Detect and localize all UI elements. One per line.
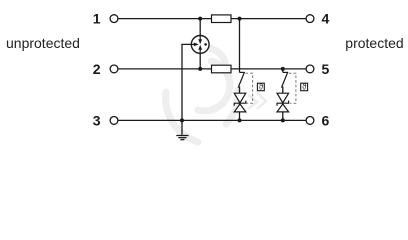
svg-text:2: 2 bbox=[93, 61, 101, 77]
terminal 1 bbox=[110, 15, 118, 23]
terminal 6 bbox=[306, 117, 314, 125]
thermal coupling dashed link 1 bbox=[246, 73, 253, 103]
svg-text:5: 5 bbox=[322, 61, 330, 77]
svg-text:1: 1 bbox=[93, 11, 101, 27]
wire branch 2 drop from line 2 bbox=[282, 69, 284, 73]
junction line 2 / GDT bbox=[198, 67, 202, 71]
suppressor diode V1 (bidirectional) bbox=[234, 93, 246, 112]
temperature monitor box 1 bbox=[257, 82, 264, 91]
svg-text:6: 6 bbox=[322, 113, 330, 129]
temperature monitor box 2 bbox=[301, 82, 308, 91]
terminal 5 bbox=[306, 65, 314, 73]
wire branch 1 lower bbox=[239, 87, 241, 121]
surge arrester F1 (3-electrode gas discharge tube) bbox=[191, 36, 209, 54]
svg-text:ϑ: ϑ bbox=[302, 82, 307, 91]
wire line 2 (terminal 2 to terminal 5) bbox=[118, 68, 306, 70]
thermal disconnect switch 1 bbox=[238, 72, 244, 88]
junction on ground rail at ground symbol bbox=[180, 118, 184, 122]
wire line 3 (ground rail, terminal 3 to terminal 6) bbox=[118, 119, 306, 121]
junction line 2 / branch 2 bbox=[281, 67, 285, 71]
wire GDT drop from line 1 bbox=[199, 19, 201, 40]
terminal 3 bbox=[110, 117, 118, 125]
svg-text:unprotected: unprotected bbox=[6, 35, 80, 51]
terminal 2 bbox=[110, 65, 118, 73]
junction ground rail / branch 1 bbox=[238, 118, 242, 122]
ground bbox=[176, 136, 188, 140]
svg-text:3: 3 bbox=[93, 113, 101, 129]
junction line 1 / GDT bbox=[198, 17, 202, 21]
suppressor diode V2 (bidirectional) bbox=[277, 93, 289, 112]
svg-text:protected: protected bbox=[345, 35, 403, 51]
wire GDT to line 2 bbox=[199, 49, 201, 69]
wire GDT ground electrode bbox=[182, 44, 191, 134]
junction line 1 / branch 1 bbox=[238, 17, 242, 21]
svg-text:ϑ: ϑ bbox=[259, 82, 264, 91]
wire line 1 (terminal 1 to terminal 4) bbox=[118, 18, 306, 20]
wire branch 1 drop from line 1 bbox=[239, 19, 241, 73]
watermark bbox=[166, 48, 239, 142]
wire branch 2 lower bbox=[282, 87, 284, 121]
junction ground rail / branch 2 bbox=[281, 118, 285, 122]
resistor R1 bbox=[212, 15, 232, 23]
thermal coupling dashed link 2 bbox=[289, 73, 296, 103]
terminal 4 bbox=[306, 15, 314, 23]
resistor R2 bbox=[212, 65, 232, 73]
svg-text:4: 4 bbox=[322, 11, 330, 27]
thermal disconnect switch 2 bbox=[282, 72, 288, 88]
